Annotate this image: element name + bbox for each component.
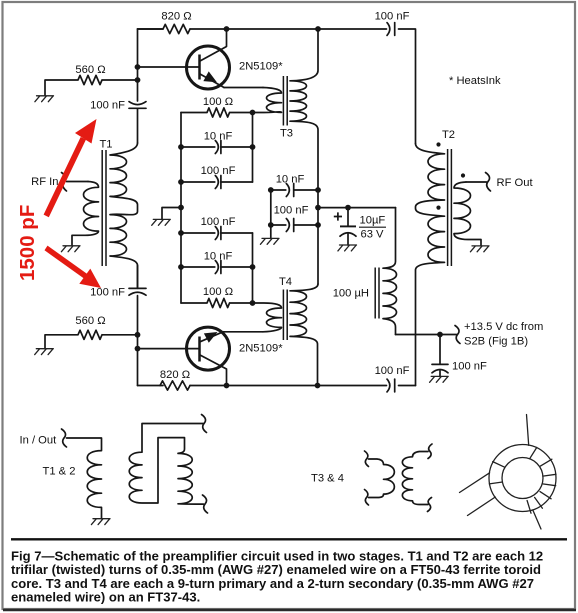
svg-text:RF Out: RF Out — [497, 177, 534, 189]
connector RF Out — [486, 173, 491, 192]
ground bottom-left — [35, 349, 54, 355]
svg-text:560 Ω: 560 Ω — [75, 315, 105, 327]
svg-text:enameled wire) on an FT37-43.: enameled wire) on an FT37-43. — [11, 590, 200, 605]
svg-text:100 nF: 100 nF — [201, 165, 236, 177]
wire base Q2 — [138, 348, 199, 350]
wire top rail — [138, 29, 416, 144]
T2 core — [448, 149, 452, 266]
winding sketch T1 and 2 : coil — [67, 438, 102, 519]
ground under bypass pair — [260, 238, 279, 244]
node base Q2 — [135, 346, 141, 352]
node supply branch — [315, 205, 321, 211]
resistor R 100 ohm lower — [181, 298, 253, 307]
node base Q1 — [135, 64, 141, 70]
node 560 ohm bottom — [135, 332, 141, 338]
node T4 secondary bottom — [315, 383, 321, 389]
svg-text:* HeatsInk: * HeatsInk — [449, 75, 501, 87]
node T3 primary / 100 ohm — [250, 110, 256, 116]
node ground tap — [178, 205, 184, 211]
node T3 secondary top — [315, 26, 321, 32]
svg-text:1500 pF: 1500 pF — [16, 205, 39, 281]
svg-text:100 nF: 100 nF — [90, 287, 125, 299]
svg-text:10 nF: 10 nF — [276, 174, 305, 186]
svg-text:In / Out: In / Out — [20, 435, 58, 447]
T3/4 sketch secondary coil — [365, 451, 369, 467]
winding sketch T1 and 2 : series pair — [129, 415, 207, 514]
node 10 nF right upper — [250, 144, 256, 150]
transistor Q2 2N5109 — [187, 327, 230, 385]
wire base Q1 — [138, 66, 199, 68]
red arrow upper — [44, 119, 97, 217]
svg-text:T1 & 2: T1 & 2 — [43, 466, 76, 478]
svg-text:100 nF: 100 nF — [452, 361, 487, 373]
svg-text:10µF: 10µF — [360, 215, 386, 227]
node collector Q1 — [224, 26, 230, 32]
T1 core — [102, 150, 106, 266]
node 10 nF left mid — [268, 187, 274, 193]
svg-text:100 Ω: 100 Ω — [203, 286, 233, 298]
node 10 nF left upper — [178, 144, 184, 150]
node collector Q2 — [224, 383, 230, 389]
svg-text:10 nF: 10 nF — [204, 251, 233, 263]
T3/4 sketch primary coil — [428, 444, 432, 459]
svg-text:T3: T3 — [280, 128, 293, 140]
svg-text:100 Ω: 100 Ω — [203, 96, 233, 108]
phase dot T2 primary mid — [436, 206, 440, 210]
capacitor C 10 nF mid-right — [271, 184, 318, 197]
winding sketch T1 and 2 : terminal — [62, 429, 67, 447]
capacitor C 100 nF series top — [387, 23, 395, 36]
T1 primary winding left — [72, 182, 99, 246]
resistor R 820 ohm top — [138, 24, 191, 33]
node 10 nF left lower — [178, 264, 184, 270]
T3 core — [283, 76, 287, 126]
node 560 ohm top — [135, 77, 141, 83]
wire emitter Q1 to T3 — [224, 87, 263, 89]
emitter RC bank upper : right rail — [252, 113, 254, 183]
ground under T2 secondary — [470, 246, 489, 252]
svg-text:T1: T1 — [99, 139, 112, 151]
wire bottom rail — [138, 385, 416, 387]
toroid lead wires — [527, 415, 529, 446]
svg-text:10 nF: 10 nF — [204, 131, 233, 143]
resistor R 100 ohm upper — [181, 108, 253, 117]
svg-text:T2: T2 — [442, 129, 455, 141]
toroid core drawing — [460, 415, 557, 530]
transformer T3 — [253, 29, 319, 284]
capacitor C 100 nF lower bank — [181, 227, 253, 240]
capacitor C 100 nF upper bank — [181, 176, 253, 189]
wire emitter Q2 to T4 — [223, 331, 263, 333]
transformer T1 — [72, 143, 138, 288]
red arrow lower — [45, 246, 102, 288]
toroid winding marks — [527, 447, 556, 513]
capacitor C 100 nF series bottom — [387, 379, 395, 392]
T4 core — [283, 290, 287, 341]
transformer T2 — [416, 144, 482, 386]
svg-text:T4: T4 — [279, 276, 292, 288]
caption separator line — [11, 538, 567, 540]
node 100 nF left upper — [178, 179, 184, 185]
ground under 10uF — [338, 245, 357, 251]
svg-text:2N5109*: 2N5109* — [239, 61, 283, 73]
connector RF In — [62, 173, 67, 192]
svg-text:S2B (Fig 1B): S2B (Fig 1B) — [464, 336, 528, 348]
node 100 nF mid-right — [315, 222, 321, 228]
node 10 nF right lower — [250, 264, 256, 270]
T1 secondary winding right — [110, 143, 138, 288]
capacitor C 100 nF upper-left — [129, 102, 146, 109]
capacitor C 10 nF lower bank — [181, 261, 253, 274]
svg-text:100 nF: 100 nF — [375, 11, 410, 23]
node 100 nF left lower — [178, 230, 184, 236]
T3 primary winding left — [253, 88, 282, 113]
resistor R 560 ohm top — [45, 75, 138, 95]
transformer T4 — [253, 284, 319, 386]
connector S2B supply — [455, 326, 460, 344]
bypass pair : left rail and caps — [270, 190, 272, 238]
capacitor C 100 nF lower-left — [129, 288, 146, 295]
inductor L 100uH — [375, 208, 396, 335]
wire left rail lower — [137, 266, 139, 386]
wire left rail upper — [137, 29, 139, 143]
svg-text:100 µH: 100 µH — [333, 288, 369, 300]
svg-text:T3 & 4: T3 & 4 — [311, 473, 344, 485]
emitter RC bank lower : right rail — [252, 233, 254, 303]
node 10uF — [345, 205, 351, 211]
phase dot T2 secondary — [461, 173, 465, 177]
node supply bypass — [437, 332, 443, 338]
node 10 nF mid-right — [315, 187, 321, 193]
ground under sketch coil — [91, 519, 110, 525]
svg-text:100 nF: 100 nF — [375, 365, 410, 377]
ground under T1 primary — [61, 246, 80, 252]
wire 13.5V distribution branch — [318, 207, 396, 209]
svg-text:2N5109*: 2N5109* — [239, 343, 283, 355]
svg-text:820 Ω: 820 Ω — [160, 369, 190, 381]
svg-text:100 nF: 100 nF — [201, 216, 236, 228]
phase dot T2 primary top — [436, 142, 440, 146]
svg-text:+13.5 V dc from: +13.5 V dc from — [464, 321, 543, 333]
T4 primary winding left — [253, 303, 282, 332]
resistor R 820 ohm bottom — [160, 381, 190, 390]
capacitor C 100 nF bypass at supply — [432, 335, 448, 377]
svg-text:820 Ω: 820 Ω — [161, 11, 191, 23]
svg-text:63 V: 63 V — [361, 229, 385, 241]
svg-text:560 Ω: 560 Ω — [75, 64, 105, 76]
transistor Q1 2N5109 — [187, 29, 230, 89]
ground under supply bypass — [430, 376, 449, 382]
wire ground tap mid-left — [162, 208, 181, 220]
capacitor C 10 nF upper bank — [181, 141, 253, 154]
emitter RC bank upper : left rail — [180, 113, 182, 304]
svg-text:100 nF: 100 nF — [274, 205, 309, 217]
svg-text:RF In: RF In — [31, 176, 58, 188]
T3 secondary winding right — [290, 29, 318, 284]
node 100 nF left mid — [268, 222, 274, 228]
wire RF Out — [466, 181, 487, 183]
T4 secondary winding right — [290, 284, 318, 386]
T2 primary winding left — [416, 144, 445, 386]
node 100 ohm / T4 primary — [250, 300, 256, 306]
ground top-left — [35, 96, 54, 102]
caption text — [11, 549, 543, 605]
capacitor C 10uF electrolytic — [334, 208, 356, 245]
wire +13.5V supply — [396, 334, 457, 336]
wire RF In — [67, 181, 89, 183]
T2 secondary winding right — [454, 182, 481, 246]
resistor R 560 ohm bottom — [45, 330, 138, 349]
svg-text:100 nF: 100 nF — [90, 100, 125, 112]
ground mid-left — [152, 219, 171, 225]
capacitor C 100 nF mid-right — [271, 219, 318, 232]
